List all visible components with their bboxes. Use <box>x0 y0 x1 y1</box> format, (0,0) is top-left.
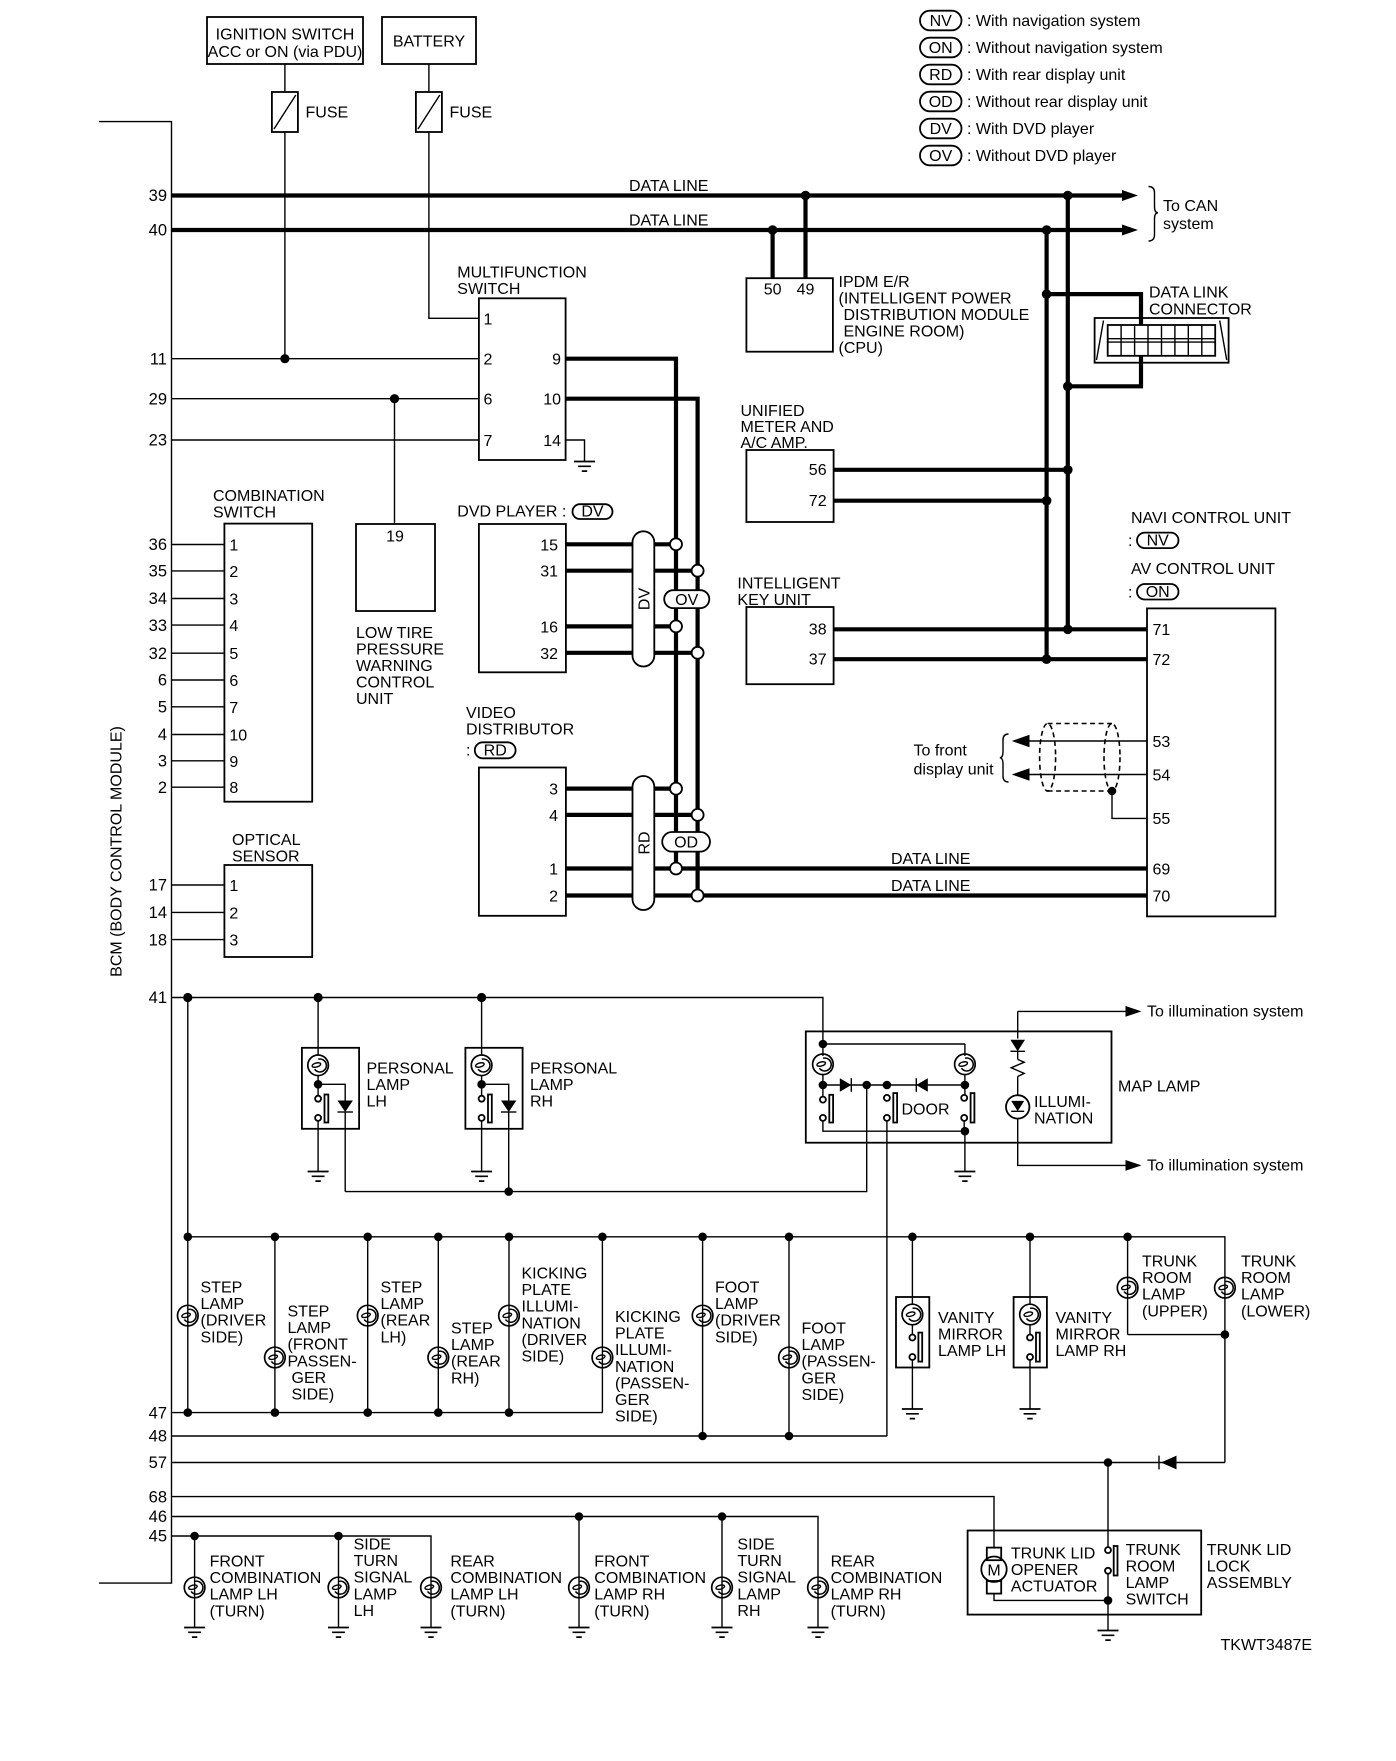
node junction line40/IPDM50 <box>768 225 778 235</box>
svg-text:LH): LH) <box>381 1329 407 1346</box>
svg-text:(CPU): (CPU) <box>839 340 883 357</box>
bulb side turn signal lamp RH <box>712 1577 733 1598</box>
svg-text:OD: OD <box>929 94 953 111</box>
svg-text:SWITCH: SWITCH <box>1126 1592 1189 1609</box>
svg-text:2: 2 <box>229 564 238 581</box>
svg-text:PERSONAL: PERSONAL <box>367 1060 454 1077</box>
svg-text:LAMP LH: LAMP LH <box>210 1587 278 1604</box>
svg-text:RD: RD <box>484 743 507 760</box>
svg-text:VANITY: VANITY <box>1056 1310 1113 1327</box>
wire fuse F2 to multifunction switch pin 1 <box>429 132 479 318</box>
node bus x=438.3 <box>434 1233 443 1242</box>
node bus x=1030 <box>1026 1233 1035 1242</box>
svg-text:19: 19 <box>386 529 404 546</box>
svg-text:FUSE: FUSE <box>450 105 493 122</box>
svg-text:INTELLIGENT: INTELLIGENT <box>737 576 840 593</box>
svg-text:10: 10 <box>543 392 561 409</box>
wire illumination out (lower) <box>1018 1119 1127 1166</box>
svg-text:GER: GER <box>615 1392 650 1409</box>
connector circle DVD15 <box>670 538 682 550</box>
node bus x=602.4 <box>598 1233 607 1242</box>
svg-text:LAMP: LAMP <box>715 1296 759 1313</box>
arrow to illumination system (upper) <box>1126 1006 1142 1017</box>
svg-text:(TURN): (TURN) <box>210 1603 265 1620</box>
node bus x=702.6 <box>698 1233 707 1242</box>
wire BCM 34 to comb.switch pin 3 <box>172 598 225 600</box>
svg-text:STEP: STEP <box>451 1321 493 1338</box>
svg-text:NATION: NATION <box>522 1315 581 1332</box>
svg-text:UNIFIED: UNIFIED <box>741 403 805 420</box>
svg-text:1: 1 <box>229 878 238 895</box>
wire MF pin 9 to connector column C <box>566 359 676 869</box>
node 41/personal LH <box>314 993 323 1002</box>
wire trunk room lamp upper column <box>1127 1237 1129 1335</box>
svg-text:ILLUMI-: ILLUMI- <box>1034 1094 1091 1111</box>
badge DV (title) <box>573 504 613 519</box>
wire line 41 <box>172 998 823 1045</box>
connector circle DVD32 <box>692 647 704 659</box>
svg-text:DOOR: DOOR <box>902 1102 950 1119</box>
svg-text:: Without DVD player: : Without DVD player <box>967 148 1117 165</box>
wire 41 into map lamp <box>823 1043 965 1045</box>
switch personal lamp RH <box>479 1096 485 1102</box>
svg-text:ROOM: ROOM <box>1126 1558 1176 1575</box>
wire vertical bus A (from line 40) <box>1044 230 1048 659</box>
svg-text:LAMP: LAMP <box>530 1077 574 1094</box>
svg-text:68: 68 <box>149 1488 167 1506</box>
svg-text:RD: RD <box>637 831 654 854</box>
svg-text:REAR: REAR <box>831 1554 875 1571</box>
node motor/switch common <box>1104 1596 1113 1605</box>
wire data line 40 (CAN) <box>172 228 1124 232</box>
svg-text:40: 40 <box>149 222 167 240</box>
svg-text:OD: OD <box>674 835 698 852</box>
svg-text:OPENER: OPENER <box>1011 1562 1079 1579</box>
svg-text:4: 4 <box>229 618 238 635</box>
svg-text:KICKING: KICKING <box>522 1266 588 1283</box>
wire column front combination lamp LH <box>194 1536 196 1627</box>
wire illumination feed (upper) <box>1017 1011 1019 1038</box>
svg-text:9: 9 <box>229 754 238 771</box>
svg-text:7: 7 <box>484 433 493 450</box>
svg-text:3: 3 <box>549 782 558 799</box>
svg-text:ACC or ON (via PDU): ACC or ON (via PDU) <box>208 44 363 61</box>
arrow to illumination system (lower) <box>1126 1160 1142 1171</box>
svg-text:(DRIVER: (DRIVER <box>522 1332 588 1349</box>
wire switch to ground <box>1107 1574 1109 1630</box>
wire column side turn signal lamp LH <box>338 1536 340 1627</box>
svg-text:(TURN): (TURN) <box>594 1603 649 1620</box>
svg-text:PRESSURE: PRESSURE <box>356 642 444 659</box>
svg-text:: With rear display unit: : With rear display unit <box>967 67 1126 84</box>
svg-text:TRUNK LID: TRUNK LID <box>1207 1542 1291 1559</box>
wire vanity LH to ground <box>911 1360 913 1409</box>
svg-text:NATION: NATION <box>1034 1110 1093 1127</box>
svg-text:IPDM E/R: IPDM E/R <box>839 274 910 291</box>
svg-text:4: 4 <box>158 726 167 744</box>
svg-text:SIDE: SIDE <box>354 1537 391 1554</box>
node 57/trunk switch branch <box>1104 1458 1113 1467</box>
svg-text:MIRROR: MIRROR <box>938 1327 1003 1344</box>
svg-text:RH: RH <box>530 1093 553 1110</box>
svg-text:COMBINATION: COMBINATION <box>210 1570 322 1587</box>
svg-text:49: 49 <box>797 282 815 299</box>
bulb side turn signal lamp LH <box>328 1577 349 1598</box>
wire switch to ground <box>317 1121 319 1171</box>
legend badge OV <box>920 146 962 166</box>
video distributor box <box>479 768 566 916</box>
bulb step lamp rear LH <box>357 1305 378 1326</box>
node trunk lamps common <box>1221 1330 1230 1339</box>
svg-text:3: 3 <box>158 753 167 771</box>
svg-text:AV CONTROL UNIT: AV CONTROL UNIT <box>1131 561 1275 578</box>
svg-text:MULTIFUNCTION: MULTIFUNCTION <box>457 265 586 282</box>
svg-text:6: 6 <box>229 673 238 690</box>
low tire pressure warning control unit box <box>356 524 435 611</box>
badge ON <box>1137 584 1179 600</box>
node junction bus A / data link upper <box>1042 289 1052 299</box>
svg-text:PLATE: PLATE <box>522 1282 572 1299</box>
svg-text:7: 7 <box>229 700 238 717</box>
svg-text:(LOWER): (LOWER) <box>1241 1303 1310 1320</box>
svg-text:LAMP: LAMP <box>381 1296 425 1313</box>
node line 47 x=187.8 <box>184 1408 193 1417</box>
bulb map lamp left <box>822 1044 824 1056</box>
svg-text:LAMP: LAMP <box>367 1077 411 1094</box>
node map bulb R <box>961 1081 970 1090</box>
svg-text:LH: LH <box>354 1603 374 1620</box>
svg-text:UNIT: UNIT <box>356 691 394 708</box>
node line 47 x=274.9 <box>271 1408 280 1417</box>
combination switch box <box>224 524 312 802</box>
node line 47 x=367.7 <box>363 1408 372 1417</box>
diode personal lamp LH <box>318 1084 345 1100</box>
svg-text:6: 6 <box>484 392 493 409</box>
wire column rear combination lamp RH <box>817 1576 819 1627</box>
wire MF pin 10 to connector column D <box>566 399 698 896</box>
wire BCM 5 to comb.switch pin 7 <box>172 706 225 708</box>
node line 47 x=438.3 <box>434 1408 443 1417</box>
svg-text:71: 71 <box>1153 622 1171 639</box>
svg-text:SENSOR: SENSOR <box>232 848 300 865</box>
brace to front display unit <box>1000 734 1009 782</box>
svg-text:70: 70 <box>1153 888 1171 905</box>
svg-text:LAMP RH: LAMP RH <box>831 1587 902 1604</box>
wire DVD pin 32 to column D <box>566 651 698 655</box>
ground (vanity LH) <box>902 1409 923 1419</box>
svg-text:PERSONAL: PERSONAL <box>530 1060 617 1077</box>
svg-text:33: 33 <box>149 617 167 635</box>
svg-text:LH: LH <box>367 1093 387 1110</box>
svg-text:LOW TIRE: LOW TIRE <box>356 625 433 642</box>
svg-text:COMBINATION: COMBINATION <box>594 1570 706 1587</box>
svg-text:ENGINE ROOM): ENGINE ROOM) <box>844 323 965 340</box>
wire BCM 6 to comb.switch pin 6 <box>172 679 225 681</box>
wire door switch to line 48 <box>886 1121 888 1436</box>
svg-text:ILLUMI-: ILLUMI- <box>615 1342 672 1359</box>
brace To CAN system <box>1149 187 1159 242</box>
node bulb/diode junction <box>477 1080 486 1089</box>
node map bulb L <box>819 1081 828 1090</box>
svg-text:45: 45 <box>149 1528 167 1546</box>
vanity mirror lamp LH box <box>896 1297 929 1368</box>
bulb personal lamp RH <box>471 1055 492 1076</box>
wire video pin 3 to column C <box>566 786 676 790</box>
svg-text:50: 50 <box>764 282 782 299</box>
wire BCM 2 to comb.switch pin 8 <box>172 786 225 788</box>
bulb rear combination lamp RH <box>808 1577 829 1598</box>
wire BCM 33 to comb.switch pin 4 <box>172 624 225 626</box>
personal lamp RH box <box>465 1048 522 1129</box>
svg-text:METER AND: METER AND <box>741 419 834 436</box>
svg-text:DV: DV <box>581 504 604 521</box>
svg-text:(UPPER): (UPPER) <box>1142 1303 1208 1320</box>
resistor illumination <box>1017 1051 1019 1059</box>
wire line 45 <box>172 1536 432 1576</box>
wire 41 drop to personal lamp RH <box>481 998 483 1056</box>
svg-text:54: 54 <box>1153 767 1171 784</box>
svg-text:SIGNAL: SIGNAL <box>737 1570 796 1587</box>
battery box <box>382 17 476 64</box>
svg-text:SIDE: SIDE <box>737 1537 774 1554</box>
svg-text:LAMP: LAMP <box>802 1337 846 1354</box>
svg-text:14: 14 <box>543 433 561 450</box>
svg-text:: Without navigation system: : Without navigation system <box>967 40 1163 57</box>
bulb front combination lamp LH <box>184 1577 205 1598</box>
svg-text:To illumination system: To illumination system <box>1147 1158 1304 1175</box>
svg-text:GER: GER <box>802 1370 837 1387</box>
svg-text:37: 37 <box>809 652 827 669</box>
wire column foot lamp passenger side <box>788 1237 790 1436</box>
LED illumination lamp <box>1017 1077 1019 1096</box>
svg-text:M: M <box>987 1562 1000 1579</box>
fuse F2 (battery) <box>416 92 442 132</box>
connector circle VID3 <box>670 783 682 795</box>
svg-text:56: 56 <box>809 462 827 479</box>
svg-text:FUSE: FUSE <box>306 105 349 122</box>
svg-text:15: 15 <box>540 537 558 554</box>
svg-text:LAMP: LAMP <box>1241 1287 1285 1304</box>
svg-text:BATTERY: BATTERY <box>393 34 466 51</box>
node bus x=367.7 <box>363 1233 372 1242</box>
svg-text:2: 2 <box>549 889 558 906</box>
svg-text:34: 34 <box>149 590 167 608</box>
wire bulb to switch <box>481 1076 483 1096</box>
bulb trunk room lamp upper <box>1117 1277 1138 1298</box>
svg-text:(REAR: (REAR <box>381 1313 431 1330</box>
svg-text:53: 53 <box>1153 734 1171 751</box>
svg-text:32: 32 <box>540 646 558 663</box>
node junction bus B / data link lower <box>1063 382 1073 392</box>
wire switch to ground <box>481 1121 483 1171</box>
node diode RH / wire <box>504 1187 513 1196</box>
svg-text:(DRIVER: (DRIVER <box>201 1313 267 1330</box>
wire map internal bus <box>822 1075 824 1096</box>
svg-text:ROOM: ROOM <box>1142 1270 1192 1287</box>
svg-text:LOCK: LOCK <box>1207 1558 1251 1575</box>
node bus x=912.4 <box>908 1233 917 1242</box>
wire diode LH down <box>344 1112 346 1192</box>
svg-text::: : <box>1128 585 1132 602</box>
node bus x=187.8 <box>184 1233 193 1242</box>
bulb vanity LH <box>902 1304 923 1325</box>
switch vanity RH <box>1029 1325 1031 1335</box>
ground (trunk room lamp switch) <box>1098 1631 1119 1641</box>
wire 41 drop to personal lamp LH <box>317 998 319 1056</box>
node bus x=274.9 <box>271 1233 280 1242</box>
svg-text:GER: GER <box>292 1370 327 1387</box>
svg-text:PASSEN-: PASSEN- <box>288 1353 357 1370</box>
svg-text:LAMP RH: LAMP RH <box>1056 1343 1127 1360</box>
svg-text:SIDE): SIDE) <box>201 1329 244 1346</box>
svg-text:(INTELLIGENT POWER: (INTELLIGENT POWER <box>839 290 1012 307</box>
wire column rear combination lamp LH <box>430 1576 432 1627</box>
svg-text:5: 5 <box>229 646 238 663</box>
bulb step lamp driver side <box>178 1305 199 1326</box>
wire meter pin 56 to bus B <box>834 468 1068 472</box>
connector capsule DV <box>633 531 655 666</box>
legend badge RD <box>920 65 962 85</box>
svg-text:46: 46 <box>149 1508 167 1526</box>
node 41/step-lamp column <box>183 993 192 1002</box>
ground (front combination lamp RH) <box>569 1628 590 1638</box>
multifunction switch box <box>479 298 566 460</box>
switch vanity LH <box>911 1325 913 1335</box>
svg-text:RH): RH) <box>451 1370 479 1387</box>
svg-text:RH: RH <box>737 1603 760 1620</box>
svg-text:NV: NV <box>1147 533 1170 550</box>
svg-text:8: 8 <box>229 780 238 797</box>
bulb rear combination lamp LH <box>421 1577 442 1598</box>
ground (personal lamp LH) <box>308 1172 329 1182</box>
trunk lid opener actuator motor M <box>987 1548 1001 1561</box>
switch personal lamp LH <box>315 1096 321 1102</box>
svg-text:(TURN): (TURN) <box>831 1603 886 1620</box>
wire trunk lamps common <box>1128 1335 1225 1463</box>
svg-text:SWITCH: SWITCH <box>457 281 520 298</box>
svg-text:DATA LINE: DATA LINE <box>891 878 970 895</box>
svg-text::: : <box>1128 533 1132 550</box>
node bulb/diode junction <box>314 1080 323 1089</box>
svg-text:47: 47 <box>149 1404 167 1422</box>
switch map right <box>961 1095 967 1101</box>
ignition switch box <box>207 17 363 64</box>
arrow to CAN system (line 39) <box>1122 190 1138 201</box>
diode illumination <box>1010 1040 1025 1052</box>
wire IPDM pin 50 drop <box>770 230 774 278</box>
wire column kicking plate illumination passenger side <box>601 1237 603 1413</box>
node map bus/personal branch <box>862 1081 871 1090</box>
wire line 57 branch to trunk room lamp switch <box>1107 1463 1109 1548</box>
svg-text:10: 10 <box>229 728 247 745</box>
wire meter pin 72 to bus A <box>834 499 1047 503</box>
svg-text:LAMP: LAMP <box>451 1337 495 1354</box>
wire IKU pin 38 to AV pin 71 <box>834 627 1147 631</box>
wire line 23 to MF pin 7 <box>172 439 479 441</box>
svg-text:17: 17 <box>149 877 167 895</box>
vanity mirror lamp RH box <box>1014 1297 1047 1368</box>
node 46/front RH <box>575 1512 584 1521</box>
wire column front combination lamp RH <box>578 1517 580 1628</box>
wire line 46 <box>172 1517 819 1577</box>
svg-text:STEP: STEP <box>201 1280 243 1297</box>
connector circle DVD31 <box>692 565 704 577</box>
svg-text:SIDE): SIDE) <box>802 1387 845 1404</box>
svg-text:ACTUATOR: ACTUATOR <box>1011 1578 1098 1595</box>
svg-text:VIDEO: VIDEO <box>466 705 516 722</box>
svg-text:VANITY: VANITY <box>938 1310 995 1327</box>
svg-text:23: 23 <box>149 432 167 450</box>
fuse F1 (ignition) <box>272 92 298 132</box>
bulb step lamp front passenger side <box>265 1347 286 1368</box>
node line 48 x=789.0 <box>785 1432 794 1441</box>
svg-text:LAMP RH: LAMP RH <box>594 1587 665 1604</box>
bulb trunk room lamp lower <box>1215 1277 1236 1298</box>
personal lamp LH box <box>302 1048 359 1129</box>
svg-text:LAMP LH: LAMP LH <box>938 1343 1006 1360</box>
wire column step lamp rear LH <box>367 1237 369 1413</box>
svg-text:NAVI CONTROL UNIT: NAVI CONTROL UNIT <box>1131 510 1291 527</box>
bulb kicking plate illumination passenger side <box>592 1347 613 1368</box>
wire BCM 32 to comb.switch pin 5 <box>172 652 225 654</box>
svg-text:KICKING: KICKING <box>615 1309 681 1326</box>
shielded cable symbol <box>1048 723 1112 725</box>
wire 41-branch down to lamp bus <box>187 998 189 1237</box>
svg-text:3: 3 <box>229 933 238 950</box>
bulb kicking plate illumination driver side <box>499 1305 520 1326</box>
navi/AV control unit box U-AV <box>1147 608 1275 916</box>
wire video pin 4 to column D <box>566 813 698 817</box>
svg-text:IGNITION SWITCH: IGNITION SWITCH <box>216 27 355 44</box>
wire line 47 <box>172 1412 603 1414</box>
wire column kicking plate illumination driver side <box>508 1237 510 1413</box>
svg-text:35: 35 <box>149 563 167 581</box>
svg-text:NATION: NATION <box>615 1359 674 1376</box>
svg-text:DVD PLAYER :: DVD PLAYER : <box>457 504 566 521</box>
bulb vanity RH <box>1020 1304 1041 1325</box>
legend badge ON <box>920 38 962 58</box>
svg-text:SIDE): SIDE) <box>615 1409 658 1426</box>
svg-text:MIRROR: MIRROR <box>1056 1327 1121 1344</box>
svg-text:38: 38 <box>809 622 827 639</box>
wire column step lamp driver side <box>187 1237 189 1413</box>
ground (side turn signal lamp RH) <box>712 1628 733 1638</box>
wire vanity RH drop <box>1029 1237 1031 1304</box>
wire line 29 branch to low tire unit pin 19 <box>394 399 396 524</box>
svg-text:3: 3 <box>229 592 238 609</box>
svg-text:To front: To front <box>914 743 968 760</box>
wire BCM 14 to optical sensor pin 2 <box>172 911 225 913</box>
svg-text:FOOT: FOOT <box>802 1321 847 1338</box>
svg-text:6: 6 <box>158 672 167 690</box>
svg-text:OV: OV <box>929 148 952 165</box>
IPDM E/R box <box>746 278 833 352</box>
connector circle VID1 <box>670 863 682 875</box>
svg-text::: : <box>466 743 470 760</box>
data link connector <box>1095 318 1229 363</box>
svg-text:LAMP: LAMP <box>1142 1287 1186 1304</box>
unified meter and A/C amp box <box>746 450 833 522</box>
svg-text:1: 1 <box>229 538 238 555</box>
bulb personal lamp LH <box>308 1055 329 1076</box>
svg-text:COMBINATION: COMBINATION <box>213 488 325 505</box>
diode map D1 (right-pointing) <box>840 1078 852 1092</box>
diode personal lamp RH <box>482 1084 509 1100</box>
wire personal diodes to door switch circuit <box>345 1085 867 1192</box>
svg-text:TURN: TURN <box>737 1553 781 1570</box>
svg-text:: With navigation system: : With navigation system <box>967 13 1140 30</box>
ground (front combination lamp LH) <box>184 1628 205 1638</box>
